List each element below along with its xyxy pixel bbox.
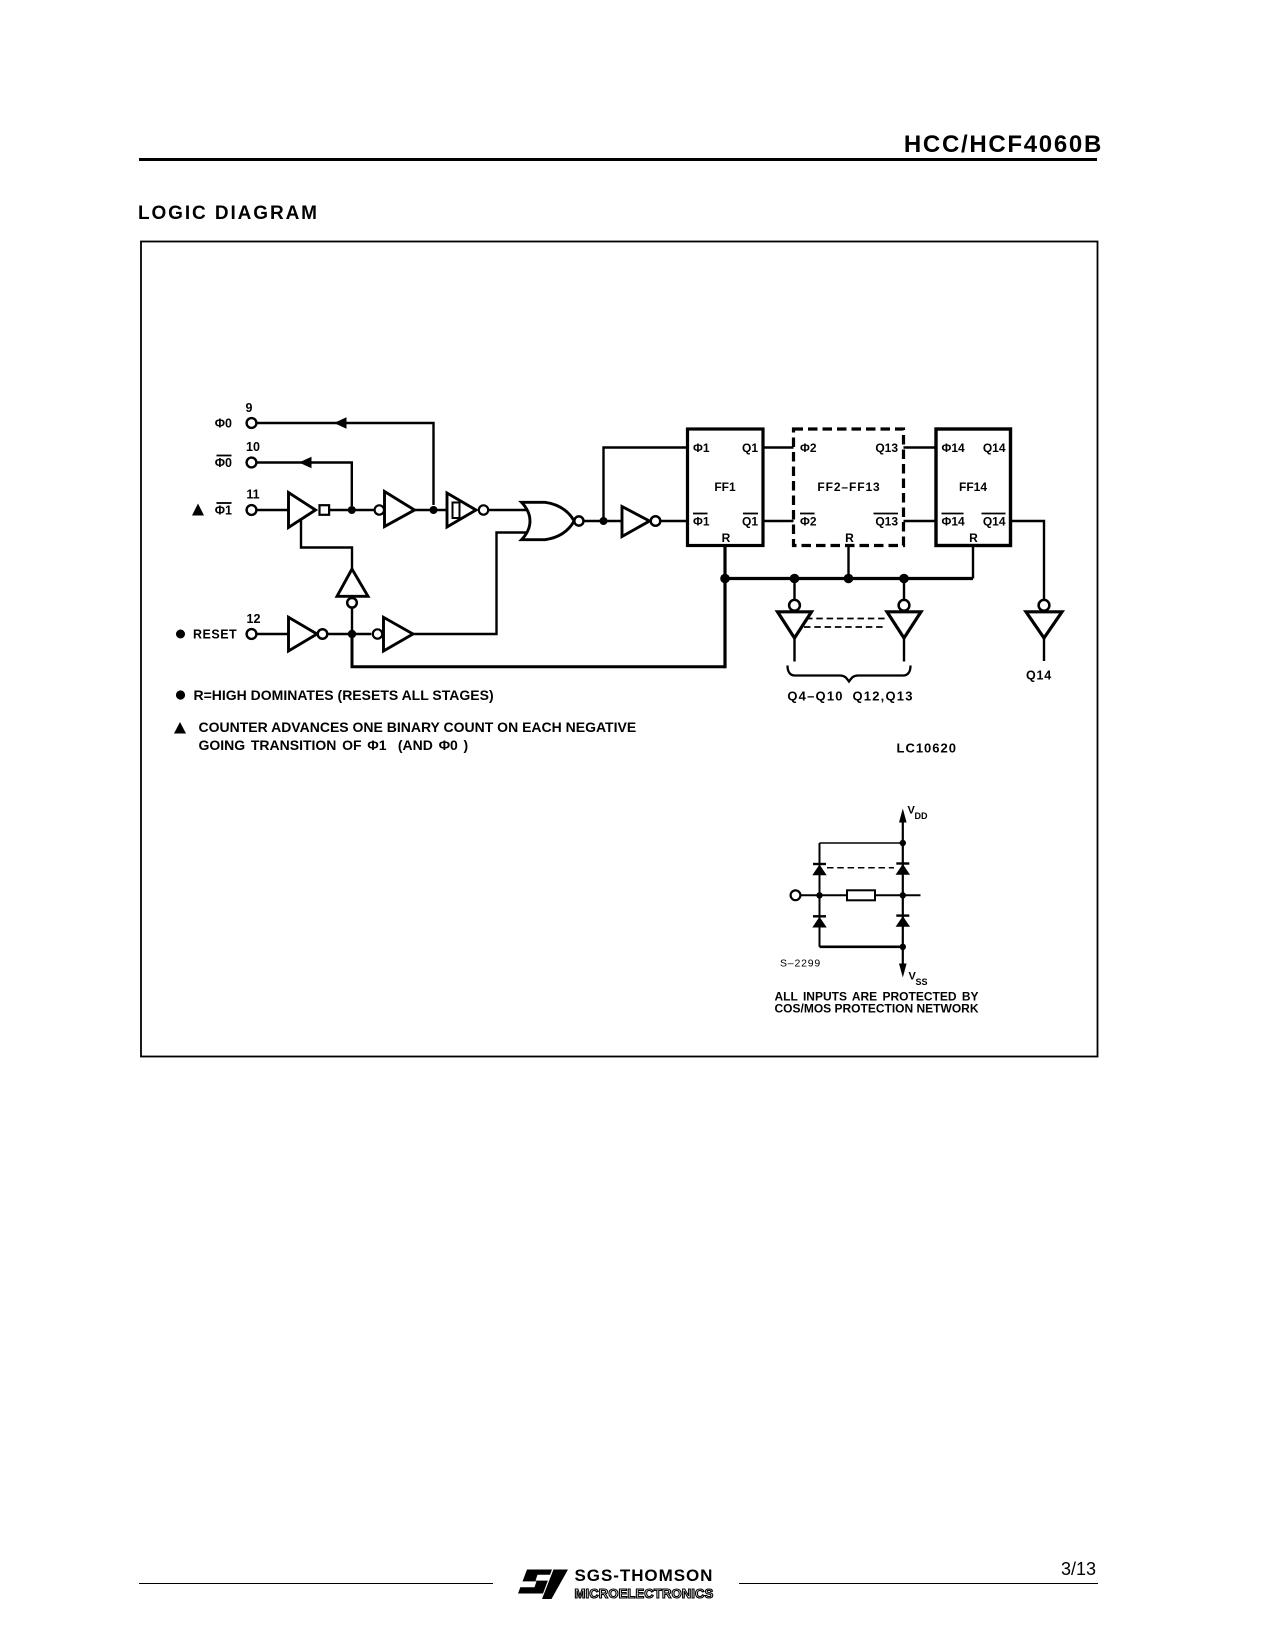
inverter B2 bubble bbox=[347, 598, 357, 608]
dashed link line 2 bbox=[804, 626, 886, 628]
svg-text:Φ0: Φ0 bbox=[215, 417, 232, 431]
node P3 bbox=[900, 840, 906, 846]
footer left rule bbox=[139, 1583, 493, 1585]
wire top rail bbox=[820, 842, 903, 844]
output buffer B3 bbox=[778, 612, 812, 638]
VSS arrow bbox=[899, 964, 928, 988]
wire pin10 feedback bbox=[257, 457, 352, 506]
svg-text:COS/MOS PROTECTION NETWORK: COS/MOS PROTECTION NETWORK bbox=[775, 1002, 979, 1016]
note R=HIGH bbox=[176, 687, 494, 703]
wire J3 up to FF1 top input bbox=[604, 448, 688, 522]
wire B4 output bbox=[903, 638, 905, 662]
diode D3 bbox=[812, 916, 826, 927]
svg-text:Q14: Q14 bbox=[1026, 669, 1052, 683]
flip-flop block FF2-FF13 bbox=[794, 429, 904, 546]
wire input to node bbox=[800, 894, 847, 896]
wire to buffer B4 bbox=[903, 579, 905, 600]
pad circle before C2 bbox=[373, 629, 382, 638]
node bus dot 4 bbox=[899, 574, 909, 584]
svg-text:LC10620: LC10620 bbox=[897, 741, 957, 756]
node bus dot 1 bbox=[720, 574, 730, 584]
wire FF14 R vertical bbox=[972, 546, 974, 579]
wire B3 output bbox=[793, 638, 795, 662]
svg-text:FF2–FF13: FF2–FF13 bbox=[817, 480, 880, 494]
inverter B1 bbox=[622, 507, 650, 537]
wire pin9 feedback bbox=[257, 417, 434, 505]
header rule bbox=[139, 158, 1097, 161]
diode D2 bbox=[896, 864, 910, 875]
wire B2 bubble to J4 bbox=[351, 608, 353, 631]
pin 10 terminal bbox=[215, 440, 260, 470]
pin 9 terminal bbox=[215, 401, 257, 431]
svg-text:Φ1: Φ1 bbox=[693, 515, 710, 529]
flip-flop FF1 bbox=[688, 429, 764, 546]
svg-text:R: R bbox=[845, 531, 854, 545]
footer right rule bbox=[739, 1583, 1098, 1585]
SGS-Thomson logo mark bbox=[514, 1570, 568, 1600]
buffer A2 bbox=[385, 492, 415, 527]
wire reset bus feed bbox=[352, 634, 725, 667]
svg-text:12: 12 bbox=[247, 612, 261, 626]
svg-text:Φ2: Φ2 bbox=[800, 515, 817, 529]
wire FF1 Q1 to FF2 bbox=[763, 446, 794, 449]
svg-text:Q13: Q13 bbox=[875, 515, 898, 529]
svg-text:GOING TRANSITION OF Φ1 (AND Φ: GOING TRANSITION OF Φ1 (AND Φ0 ) bbox=[199, 737, 469, 753]
wire FF14 Q14bar out bbox=[1011, 521, 1045, 600]
node P4 bbox=[900, 944, 906, 950]
svg-text:Φ0: Φ0 bbox=[215, 456, 232, 470]
wire to buffer B3 bbox=[793, 579, 795, 600]
pad circle after A3 bbox=[479, 505, 488, 514]
wire B1 to FF1 bbox=[660, 520, 687, 522]
wire resistor to node P2 bbox=[875, 894, 921, 896]
wire B2 apex to buffer A1 bbox=[301, 519, 352, 570]
svg-text:R=HIGH DOMINATES (RESETS ALL S: R=HIGH DOMINATES (RESETS ALL STAGES) bbox=[194, 687, 494, 703]
svg-text:Q13: Q13 bbox=[875, 441, 898, 455]
reset bus horizontal bbox=[724, 577, 974, 580]
svg-text:Φ2: Φ2 bbox=[800, 441, 817, 455]
NOR gate G1 bbox=[522, 502, 575, 539]
wire A2 to A3 bbox=[415, 509, 448, 511]
page number 3/13 bbox=[996, 1559, 1096, 1580]
svg-text:DD: DD bbox=[915, 811, 928, 821]
buffer A1 phi1 input bbox=[289, 493, 316, 528]
reset buffer C1 bubble bbox=[318, 629, 328, 639]
svg-text:FF1: FF1 bbox=[714, 480, 736, 494]
node junction J2 bbox=[430, 506, 438, 514]
inverter B1 bubble bbox=[651, 516, 661, 526]
svg-text:COUNTER ADVANCES ONE BINARY CO: COUNTER ADVANCES ONE BINARY COUNT ON EAC… bbox=[199, 719, 637, 735]
svg-text:FF14: FF14 bbox=[959, 480, 987, 494]
reset buffer C2 bbox=[384, 617, 414, 651]
output inverter B5 Q14 bbox=[1026, 612, 1062, 638]
output buffer B3 bubble bbox=[789, 600, 800, 611]
svg-text:Φ14: Φ14 bbox=[942, 441, 966, 455]
pin 11 terminal bbox=[192, 488, 260, 518]
protection network input terminal bbox=[791, 890, 801, 900]
diode D1 bbox=[812, 864, 826, 875]
svg-text:S–2299: S–2299 bbox=[780, 958, 821, 970]
wire C1 to junction bbox=[327, 633, 371, 635]
reset buffer C1 bbox=[289, 617, 318, 651]
output inverter B5 bubble bbox=[1039, 600, 1050, 611]
svg-text:SS: SS bbox=[916, 977, 928, 987]
svg-text:Q14: Q14 bbox=[983, 441, 1006, 455]
flip-flop FF14 bbox=[936, 429, 1011, 546]
svg-text:Q4–Q10 Q12,Q13: Q4–Q10 Q12,Q13 bbox=[787, 689, 913, 704]
svg-text:R: R bbox=[969, 531, 978, 545]
node bus dot 3 bbox=[844, 574, 854, 584]
delay element A3 bbox=[447, 493, 476, 527]
dashed link line 1 bbox=[806, 618, 888, 620]
note all inputs protected bbox=[775, 990, 979, 1016]
node bus dot 2 bbox=[790, 574, 800, 584]
wire FF1 Q1bar to FF2 bbox=[763, 520, 794, 523]
output buffer B4 bbox=[887, 612, 921, 638]
SGS-THOMSON wordmark bbox=[575, 1566, 714, 1586]
svg-text:RESET: RESET bbox=[193, 628, 237, 642]
wire FF1 R vertical bbox=[723, 546, 726, 669]
resistor R1 bbox=[847, 890, 875, 900]
svg-text:Φ1: Φ1 bbox=[693, 441, 710, 455]
wire NOR to FF1 phi1 bbox=[584, 520, 623, 522]
note counter advances bbox=[174, 719, 636, 753]
wire reset branch to NOR lower input bbox=[413, 533, 527, 635]
wire FF2 Q13bar to FF14 bbox=[904, 520, 937, 523]
wire A3 pad to NOR input bbox=[488, 509, 526, 511]
diode D4 bbox=[896, 916, 910, 927]
node junction J3 bbox=[600, 517, 608, 525]
node junction J4 bbox=[348, 630, 356, 638]
svg-text:Φ14: Φ14 bbox=[942, 515, 966, 529]
node P1 bbox=[816, 892, 822, 898]
wire pin12 to buffer bbox=[257, 633, 289, 635]
diagram frame bbox=[141, 242, 1098, 1057]
pad circle before A2 bbox=[375, 505, 384, 514]
svg-text:10: 10 bbox=[246, 440, 260, 454]
NOR output bubble bbox=[574, 516, 583, 525]
svg-text:Q14: Q14 bbox=[983, 515, 1006, 529]
svg-text:Φ1: Φ1 bbox=[215, 504, 232, 518]
dashed diode link bbox=[827, 867, 894, 869]
wire FF2 Q13 to FF14 bbox=[904, 446, 937, 449]
output buffer B4 bubble bbox=[899, 600, 910, 611]
VDD arrow bbox=[899, 805, 928, 823]
header part number bbox=[0, 131, 1103, 159]
node junction J1 bbox=[348, 506, 356, 514]
svg-text:Q1: Q1 bbox=[742, 515, 758, 529]
svg-text:R: R bbox=[722, 531, 731, 545]
wire B5 output bbox=[1043, 638, 1045, 661]
inverter B2 tristate bbox=[337, 569, 368, 596]
section heading bbox=[138, 203, 319, 225]
svg-text:11: 11 bbox=[246, 488, 259, 502]
svg-text:9: 9 bbox=[246, 401, 253, 415]
node P2 bbox=[900, 892, 906, 898]
svg-text:Q1: Q1 bbox=[742, 441, 758, 455]
wire bottom rail bbox=[820, 945, 903, 948]
wire pin11 to buffer bbox=[257, 509, 289, 511]
pin 12 terminal bbox=[176, 612, 260, 642]
wire VDD-VSS vertical bbox=[902, 820, 904, 966]
wire A1 pad to junction bbox=[329, 509, 375, 511]
pad square after A1 bbox=[320, 505, 330, 515]
MICROELECTRONICS wordmark bbox=[575, 1586, 714, 1601]
brace outputs bbox=[788, 666, 911, 682]
wire left branch vertical bbox=[819, 843, 821, 947]
wire FF2 R vertical bbox=[847, 546, 849, 579]
